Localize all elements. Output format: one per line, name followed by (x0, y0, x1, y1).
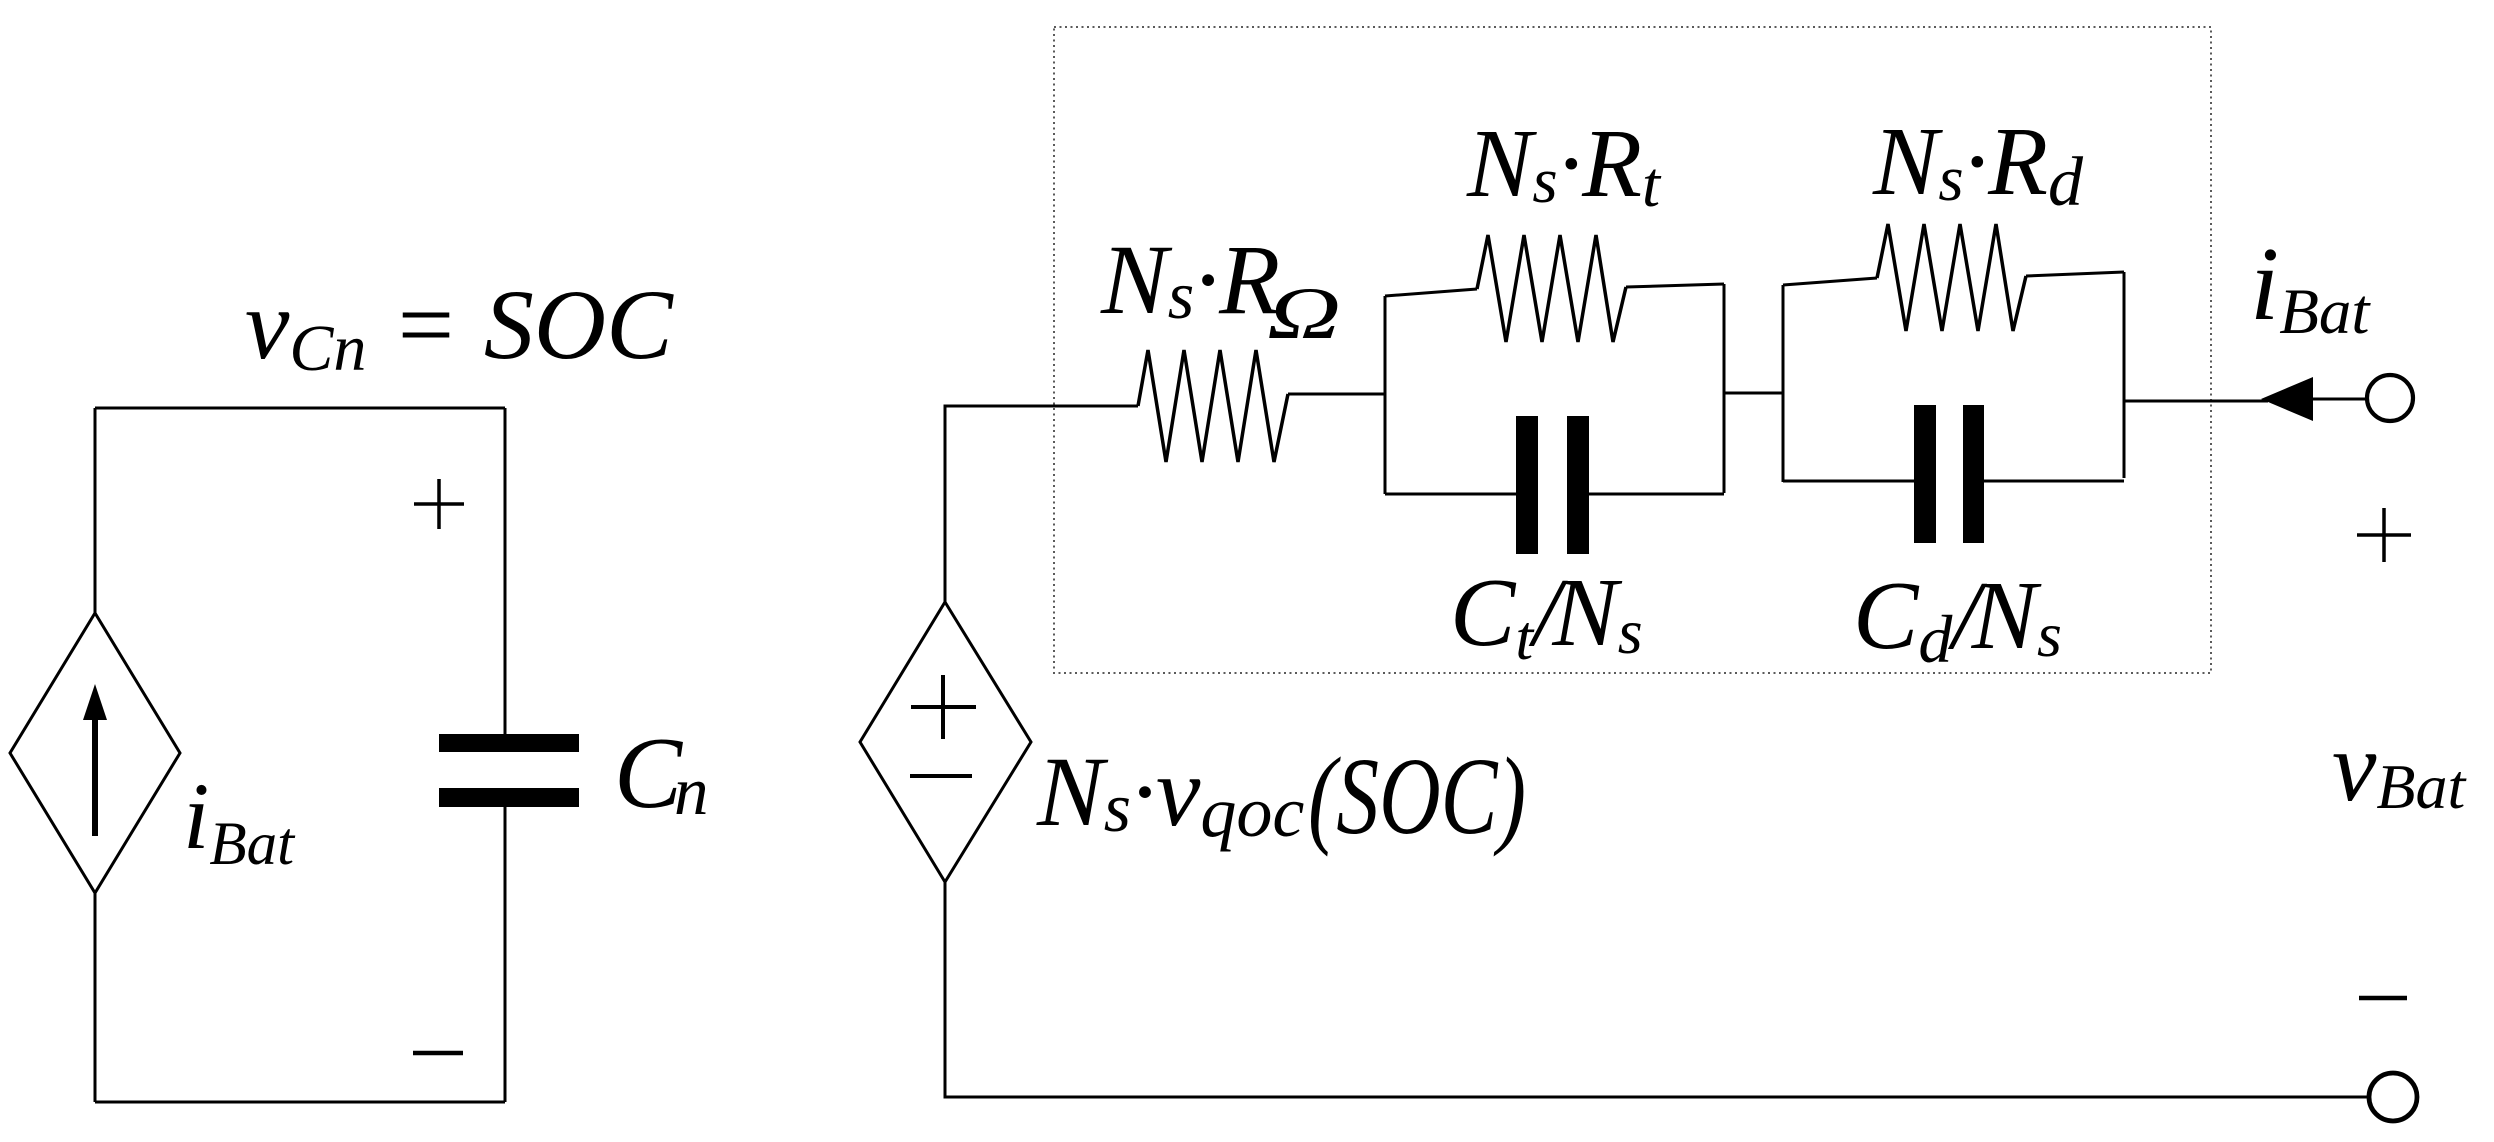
svg-text:Ω: Ω (1267, 273, 1341, 355)
svg-text:Cd/Ns: Cd/Ns (1853, 562, 2062, 677)
svg-text:Ns·Rt: Ns·Rt (1466, 110, 1662, 221)
svg-text:(SOC): (SOC) (1308, 735, 1526, 857)
svg-text:Ct/Ns: Ct/Ns (1450, 559, 1643, 673)
